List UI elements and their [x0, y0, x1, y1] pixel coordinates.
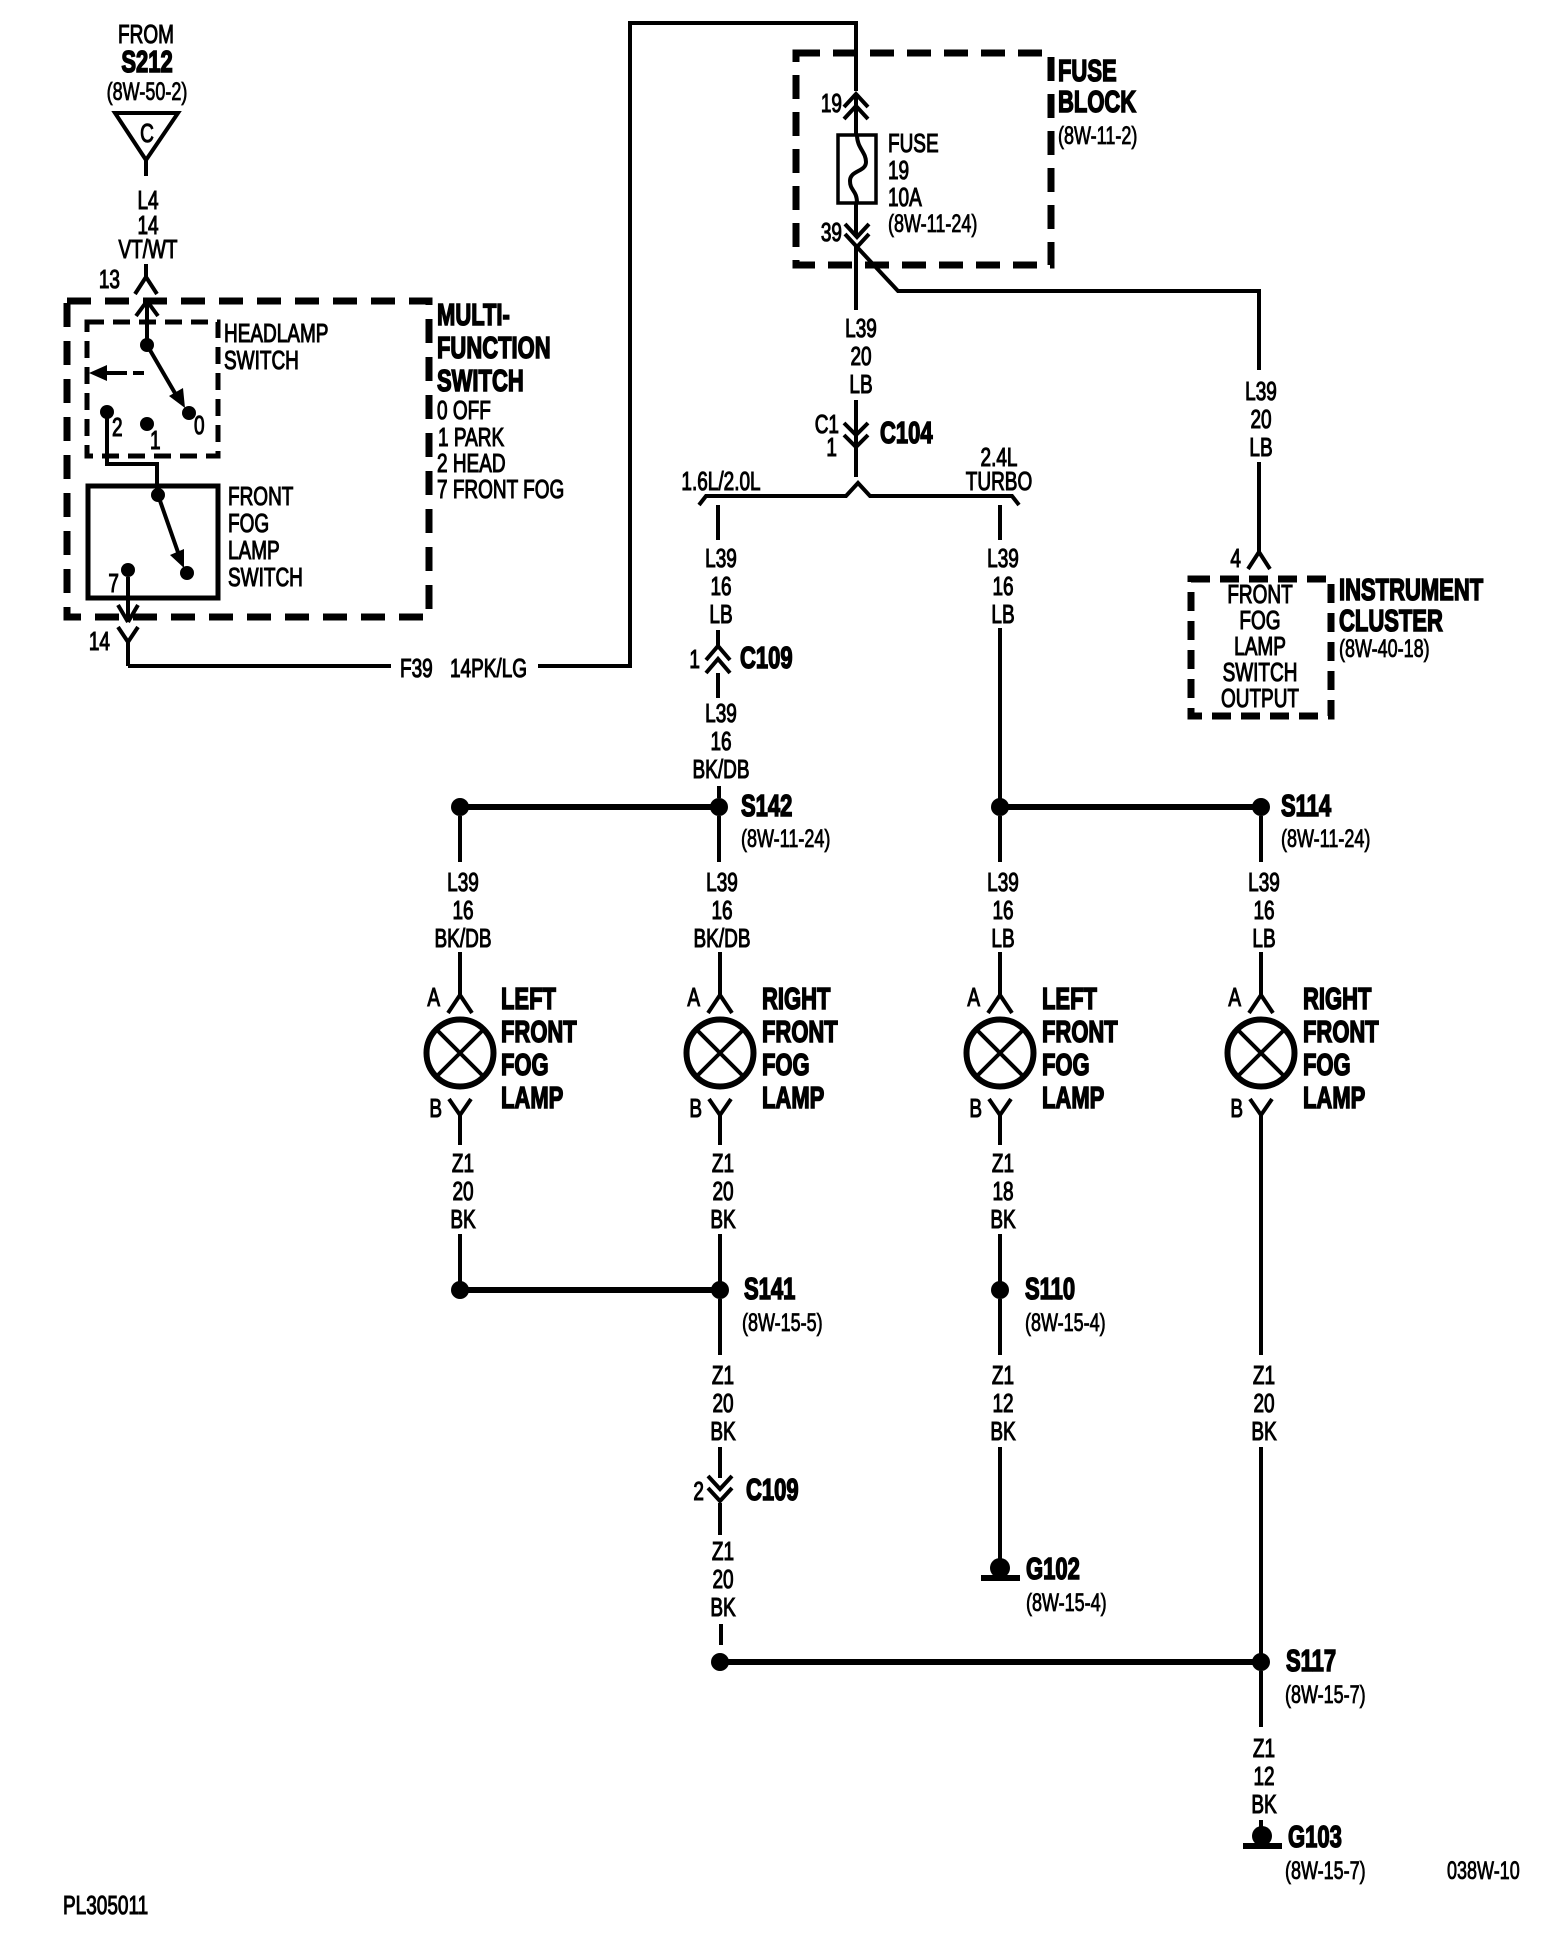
- splice S141: [451, 1272, 823, 1337]
- svg-text:2: 2: [693, 1476, 704, 1506]
- front fog lamp switch output label: [1221, 579, 1299, 713]
- wire label Z1 20 BK (lamp4): [1251, 1360, 1276, 1446]
- svg-text:A: A: [967, 982, 980, 1012]
- svg-text:VT/WT: VT/WT: [118, 234, 177, 264]
- svg-text:INSTRUMENT: INSTRUMENT: [1339, 573, 1483, 607]
- svg-text:7: 7: [108, 568, 119, 598]
- svg-text:FRONT: FRONT: [1303, 1015, 1379, 1049]
- svg-text:BK: BK: [710, 1416, 735, 1446]
- svg-text:(8W-15-7): (8W-15-7): [1285, 1856, 1366, 1885]
- wire below S110: [998, 1299, 1002, 1355]
- wire below S114 right: [1259, 816, 1263, 862]
- svg-text:BLOCK: BLOCK: [1058, 85, 1136, 119]
- svg-text:(8W-11-2): (8W-11-2): [1058, 121, 1137, 150]
- connector C104: [815, 409, 933, 462]
- headlamp switch contact 1: [140, 417, 161, 455]
- connector pin 4 of instrument cluster: [1230, 543, 1270, 573]
- svg-text:20: 20: [850, 341, 871, 371]
- svg-text:(8W-11-24): (8W-11-24): [1281, 824, 1370, 853]
- wire label L39 16 LB (right branch): [987, 543, 1019, 629]
- svg-text:HEADLAMP: HEADLAMP: [224, 318, 328, 348]
- wire label L39 20 LB: [845, 313, 877, 399]
- svg-text:LAMP: LAMP: [1303, 1081, 1365, 1115]
- wire label Z1 12 BK (below S117): [1251, 1733, 1276, 1819]
- svg-text:PL305011: PL305011: [63, 1890, 148, 1920]
- svg-text:LB: LB: [991, 599, 1014, 629]
- svg-text:(8W-15-5): (8W-15-5): [742, 1308, 823, 1337]
- splice S114: [991, 789, 1370, 853]
- svg-text:(8W-15-4): (8W-15-4): [1026, 1588, 1107, 1617]
- svg-text:0 OFF: 0 OFF: [437, 395, 491, 425]
- right front fog lamp (1.6L/2.0L): [687, 1020, 754, 1087]
- svg-text:1: 1: [826, 432, 837, 462]
- svg-text:20: 20: [1250, 404, 1271, 434]
- wire 1.6L/2.0L branch upper: [716, 505, 720, 540]
- svg-text:G102: G102: [1026, 1552, 1080, 1586]
- splice S117: [1252, 1644, 1366, 1709]
- lamp1 pin B: [429, 1093, 471, 1145]
- wire to ground G103: [1259, 1820, 1263, 1828]
- svg-text:19: 19: [888, 155, 909, 185]
- svg-text:Z1: Z1: [712, 1360, 734, 1390]
- wire label L39 20 LB (cluster feed): [1245, 376, 1277, 462]
- fuse block box: [796, 53, 1051, 265]
- off-page connector C from S212: [115, 113, 178, 160]
- svg-text:BK: BK: [450, 1204, 475, 1234]
- svg-text:BK: BK: [990, 1416, 1015, 1446]
- splice S142: [451, 789, 830, 853]
- instrument cluster box: [1191, 579, 1331, 716]
- svg-text:18: 18: [992, 1176, 1013, 1206]
- wire label L4 14 VT/WT: [118, 185, 177, 264]
- wire below C109 pin 1: [716, 673, 720, 698]
- wire below S142 right: [717, 816, 721, 862]
- lamp4 name label: [1303, 982, 1379, 1115]
- svg-text:FOG: FOG: [501, 1048, 549, 1082]
- wire into C109 pin 2: [718, 1447, 722, 1478]
- svg-text:038W-10: 038W-10: [1447, 1856, 1520, 1885]
- svg-text:FOG: FOG: [228, 508, 269, 538]
- svg-text:FOG: FOG: [1042, 1048, 1090, 1082]
- svg-text:BK/DB: BK/DB: [693, 754, 750, 784]
- svg-text:A: A: [687, 982, 700, 1012]
- front fog lamp switch wiper: [151, 488, 194, 580]
- fuse block label: [1058, 54, 1137, 150]
- svg-text:(8W-15-4): (8W-15-4): [1025, 1308, 1106, 1337]
- svg-text:BK: BK: [1251, 1416, 1276, 1446]
- front fog lamp switch label: [228, 481, 303, 592]
- svg-text:B: B: [429, 1093, 442, 1123]
- svg-text:LEFT: LEFT: [501, 982, 556, 1016]
- svg-text:B: B: [1230, 1093, 1243, 1123]
- svg-text:FUNCTION: FUNCTION: [437, 331, 551, 365]
- svg-text:20: 20: [1253, 1388, 1274, 1418]
- svg-text:BK: BK: [1251, 1789, 1276, 1819]
- wire to ground G102: [998, 1447, 1002, 1560]
- svg-text:FRONT: FRONT: [501, 1015, 577, 1049]
- svg-text:1: 1: [150, 425, 161, 455]
- wire to lamp4 pin A: [1259, 952, 1263, 995]
- svg-text:(8W-11-24): (8W-11-24): [741, 824, 830, 853]
- svg-text:C109: C109: [746, 1473, 799, 1507]
- svg-text:S117: S117: [1286, 1644, 1336, 1678]
- wire below S142 left: [458, 816, 462, 862]
- headlamp switch wiper: [140, 338, 185, 408]
- wire 2.4L turbo branch upper: [998, 505, 1002, 540]
- wire down to cluster pin 4: [1257, 462, 1261, 552]
- svg-text:L39: L39: [845, 313, 877, 343]
- svg-text:(8W-15-7): (8W-15-7): [1285, 1680, 1366, 1709]
- label 2.4L TURBO: [966, 442, 1032, 496]
- svg-text:FOG: FOG: [762, 1048, 810, 1082]
- wire label Z1 20 BK (lamp1): [450, 1148, 475, 1234]
- right front fog lamp (2.4L turbo): [1228, 1020, 1295, 1087]
- wire to lamp3 pin A: [998, 952, 1002, 995]
- multi-function switch label: [437, 298, 551, 398]
- svg-text:MULTI-: MULTI-: [437, 298, 510, 332]
- headlamp switch contact 0: [182, 406, 205, 440]
- svg-text:FOG: FOG: [1303, 1048, 1351, 1082]
- engine split brace: [699, 483, 1019, 505]
- svg-text:2: 2: [112, 412, 123, 442]
- headlamp switch box: [87, 322, 218, 456]
- wire below S114 left: [998, 816, 1002, 862]
- svg-text:S212: S212: [121, 45, 172, 79]
- wire label Z1 20 BK (below C109 pin 2): [710, 1536, 735, 1622]
- lamp2 pin A: [687, 982, 732, 1013]
- svg-text:16: 16: [1253, 895, 1274, 925]
- multi-function switch box: [67, 301, 429, 617]
- svg-text:Z1: Z1: [712, 1536, 734, 1566]
- svg-text:10A: 10A: [888, 182, 922, 212]
- svg-text:Z1: Z1: [992, 1360, 1014, 1390]
- wire from fuse to pin 39: [854, 203, 858, 237]
- svg-text:FRONT: FRONT: [762, 1015, 838, 1049]
- svg-text:16: 16: [992, 895, 1013, 925]
- splice S110: [991, 1272, 1106, 1337]
- fog switch contact 7: [108, 563, 135, 598]
- svg-text:LEFT: LEFT: [1042, 982, 1097, 1016]
- svg-text:14: 14: [89, 626, 110, 656]
- svg-text:16: 16: [992, 571, 1013, 601]
- svg-text:BK: BK: [710, 1592, 735, 1622]
- wire label Z1 20 BK (below S141): [710, 1360, 735, 1446]
- wire stub to bottom junction: [719, 1624, 723, 1645]
- wire label Z1 20 BK (lamp2): [710, 1148, 735, 1234]
- svg-text:L39: L39: [705, 698, 737, 728]
- wire into connector C104: [854, 400, 858, 477]
- wire label L39 16 BK/DB (left branch): [693, 698, 750, 784]
- headlamp switch contact 2: [100, 405, 123, 442]
- wire label L39 16 BK/DB (lamp2): [694, 867, 751, 953]
- wire lamp3 to splice S110: [998, 1234, 1002, 1285]
- left front fog lamp (1.6L/2.0L): [427, 1020, 494, 1087]
- svg-text:Z1: Z1: [1253, 1733, 1275, 1763]
- svg-text:13: 13: [99, 264, 120, 294]
- wire label L39 16 BK/DB (lamp1): [435, 867, 492, 953]
- svg-text:F39: F39: [400, 653, 433, 683]
- svg-text:LAMP: LAMP: [762, 1081, 824, 1115]
- ground G102: [981, 1552, 1107, 1617]
- wire label F39 14PK/LG: [400, 653, 527, 683]
- svg-text:Z1: Z1: [1253, 1360, 1275, 1390]
- svg-text:CLUSTER: CLUSTER: [1339, 604, 1443, 638]
- svg-text:C104: C104: [880, 416, 933, 450]
- connector pin 19 of fuse block: [821, 88, 868, 119]
- wire below C109 pin 2: [718, 1503, 722, 1535]
- headlamp switch direction arrow: [89, 365, 144, 381]
- wire 2.4L turbo branch to splice S114: [998, 628, 1002, 807]
- wire to lamp2 pin A: [718, 952, 722, 995]
- svg-text:20: 20: [712, 1388, 733, 1418]
- wire to lamp1 pin A: [458, 952, 462, 995]
- fuse 19 10A: [838, 135, 876, 203]
- svg-text:FUSE: FUSE: [888, 128, 939, 158]
- wire below S117: [1259, 1671, 1263, 1727]
- svg-text:16: 16: [710, 571, 731, 601]
- svg-text:L39: L39: [447, 867, 479, 897]
- svg-text:(8W-40-18): (8W-40-18): [1339, 634, 1430, 663]
- wire F39 from pin 14: [128, 664, 391, 668]
- svg-text:SWITCH: SWITCH: [228, 562, 303, 592]
- lamp3 pin B: [969, 1093, 1011, 1145]
- svg-text:L39: L39: [1245, 376, 1277, 406]
- svg-text:S142: S142: [741, 789, 792, 823]
- svg-text:S141: S141: [744, 1272, 795, 1306]
- front fog lamp switch box: [88, 486, 218, 598]
- wire label L39 16 LB (lamp3): [987, 867, 1019, 953]
- svg-text:16: 16: [452, 895, 473, 925]
- wire L39 below pin 39: [854, 245, 858, 310]
- svg-text:LAMP: LAMP: [228, 535, 280, 565]
- svg-text:19: 19: [821, 88, 842, 118]
- svg-text:FUSE: FUSE: [1058, 54, 1117, 88]
- svg-text:L39: L39: [705, 543, 737, 573]
- svg-text:20: 20: [712, 1564, 733, 1594]
- svg-text:LAMP: LAMP: [1042, 1081, 1104, 1115]
- svg-text:LB: LB: [849, 369, 872, 399]
- wire branch from pin 39 to instrument cluster: [857, 247, 1259, 370]
- wire from contact 7 to pin 14 (arrow down): [118, 577, 138, 622]
- svg-text:RIGHT: RIGHT: [762, 982, 830, 1016]
- lamp1 name label: [501, 982, 577, 1115]
- svg-text:14PK/LG: 14PK/LG: [450, 653, 527, 683]
- svg-text:Z1: Z1: [992, 1148, 1014, 1178]
- wire below S141: [718, 1299, 722, 1355]
- lamp3 pin A: [967, 982, 1012, 1013]
- instrument cluster label: [1339, 573, 1483, 663]
- lamp2 pin B: [689, 1093, 731, 1145]
- wire lamp4 to splice S117: [1259, 1447, 1263, 1655]
- svg-text:L39: L39: [706, 867, 738, 897]
- svg-text:20: 20: [712, 1176, 733, 1206]
- connector C109 pin 1: [689, 641, 792, 675]
- svg-text:BK/DB: BK/DB: [435, 923, 492, 953]
- svg-text:OUTPUT: OUTPUT: [1221, 683, 1299, 713]
- lamp1 pin A: [427, 982, 472, 1013]
- svg-text:1: 1: [689, 644, 700, 674]
- svg-text:C: C: [140, 118, 154, 148]
- fuse value label FUSE 19 10A: [888, 128, 977, 238]
- svg-text:0: 0: [194, 410, 205, 440]
- svg-text:SWITCH: SWITCH: [224, 345, 299, 375]
- wire bottom junction to splice S117: [720, 1659, 1261, 1665]
- svg-text:B: B: [969, 1093, 982, 1123]
- svg-text:L39: L39: [987, 867, 1019, 897]
- node FROM S212 label: [107, 19, 188, 106]
- svg-text:4: 4: [1230, 543, 1241, 573]
- multi-function switch position legend: [437, 395, 564, 504]
- svg-text:LAMP: LAMP: [501, 1081, 563, 1115]
- wire stub into splice S142: [717, 786, 721, 798]
- svg-text:LB: LB: [1249, 432, 1272, 462]
- svg-text:(8W-11-24): (8W-11-24): [888, 209, 977, 238]
- wire label Z1 18 BK (lamp3): [990, 1148, 1015, 1234]
- connector pin 39 of fuse block: [821, 217, 869, 247]
- svg-text:FRONT: FRONT: [228, 481, 293, 511]
- connector C109 pin 2: [693, 1473, 798, 1507]
- wire label L39 16 LB (lamp4): [1248, 867, 1280, 953]
- svg-text:S114: S114: [1281, 789, 1331, 823]
- lamp4 pin A: [1228, 982, 1273, 1013]
- lamp2 name label: [762, 982, 838, 1115]
- connector pin 14 (female fork): [89, 626, 138, 666]
- lamp3 name label: [1042, 982, 1118, 1115]
- svg-text:LB: LB: [1252, 923, 1275, 953]
- svg-text:20: 20: [452, 1176, 473, 1206]
- svg-text:C109: C109: [740, 641, 793, 675]
- headlamp switch label: [224, 318, 328, 375]
- left front fog lamp (2.4L turbo): [967, 1020, 1034, 1087]
- svg-text:FRONT: FRONT: [1042, 1015, 1118, 1049]
- svg-text:12: 12: [992, 1388, 1013, 1418]
- wire into C109 pin 1: [716, 630, 720, 646]
- svg-text:BK/DB: BK/DB: [694, 923, 751, 953]
- wire from contact 2 to fog lamp switch: [107, 418, 157, 489]
- wire F39 up and over to fuse block: [538, 23, 856, 666]
- svg-text:12: 12: [1253, 1761, 1274, 1791]
- connector pin 13 (female fork): [99, 264, 157, 294]
- wire lamp2 to splice S141: [718, 1234, 722, 1285]
- svg-text:SWITCH: SWITCH: [437, 364, 524, 398]
- svg-text:16: 16: [711, 895, 732, 925]
- svg-text:LB: LB: [709, 599, 732, 629]
- bottom junction node: [711, 1653, 729, 1671]
- svg-text:A: A: [1228, 982, 1241, 1012]
- svg-text:(8W-50-2): (8W-50-2): [107, 77, 188, 106]
- svg-text:Z1: Z1: [452, 1148, 474, 1178]
- svg-text:S110: S110: [1025, 1272, 1075, 1306]
- svg-text:BK: BK: [990, 1204, 1015, 1234]
- wire label Z1 12 BK (below S110): [990, 1360, 1015, 1446]
- svg-text:L39: L39: [987, 543, 1019, 573]
- svg-text:Z1: Z1: [712, 1148, 734, 1178]
- svg-text:L39: L39: [1248, 867, 1280, 897]
- wire from pin 19 to fuse: [854, 94, 858, 135]
- lamp4 pin B: [1230, 1093, 1272, 1355]
- svg-text:LB: LB: [991, 923, 1014, 953]
- wire into multi-function switch (male arrow up): [136, 301, 158, 345]
- svg-text:1.6L/2.0L: 1.6L/2.0L: [681, 466, 760, 496]
- wire lamp1 to splice S141: [458, 1234, 462, 1285]
- svg-text:G103: G103: [1288, 1820, 1342, 1854]
- ground G103: [1243, 1820, 1366, 1885]
- svg-text:TURBO: TURBO: [966, 466, 1032, 496]
- wire label L39 16 LB (left branch): [705, 543, 737, 629]
- svg-text:BK: BK: [710, 1204, 735, 1234]
- svg-text:B: B: [689, 1093, 702, 1123]
- svg-text:A: A: [427, 982, 440, 1012]
- svg-text:39: 39: [821, 217, 842, 247]
- svg-text:16: 16: [710, 726, 731, 756]
- svg-text:RIGHT: RIGHT: [1303, 982, 1371, 1016]
- svg-text:7 FRONT FOG: 7 FRONT FOG: [437, 474, 564, 504]
- wire L4 stub below triangle: [144, 160, 148, 176]
